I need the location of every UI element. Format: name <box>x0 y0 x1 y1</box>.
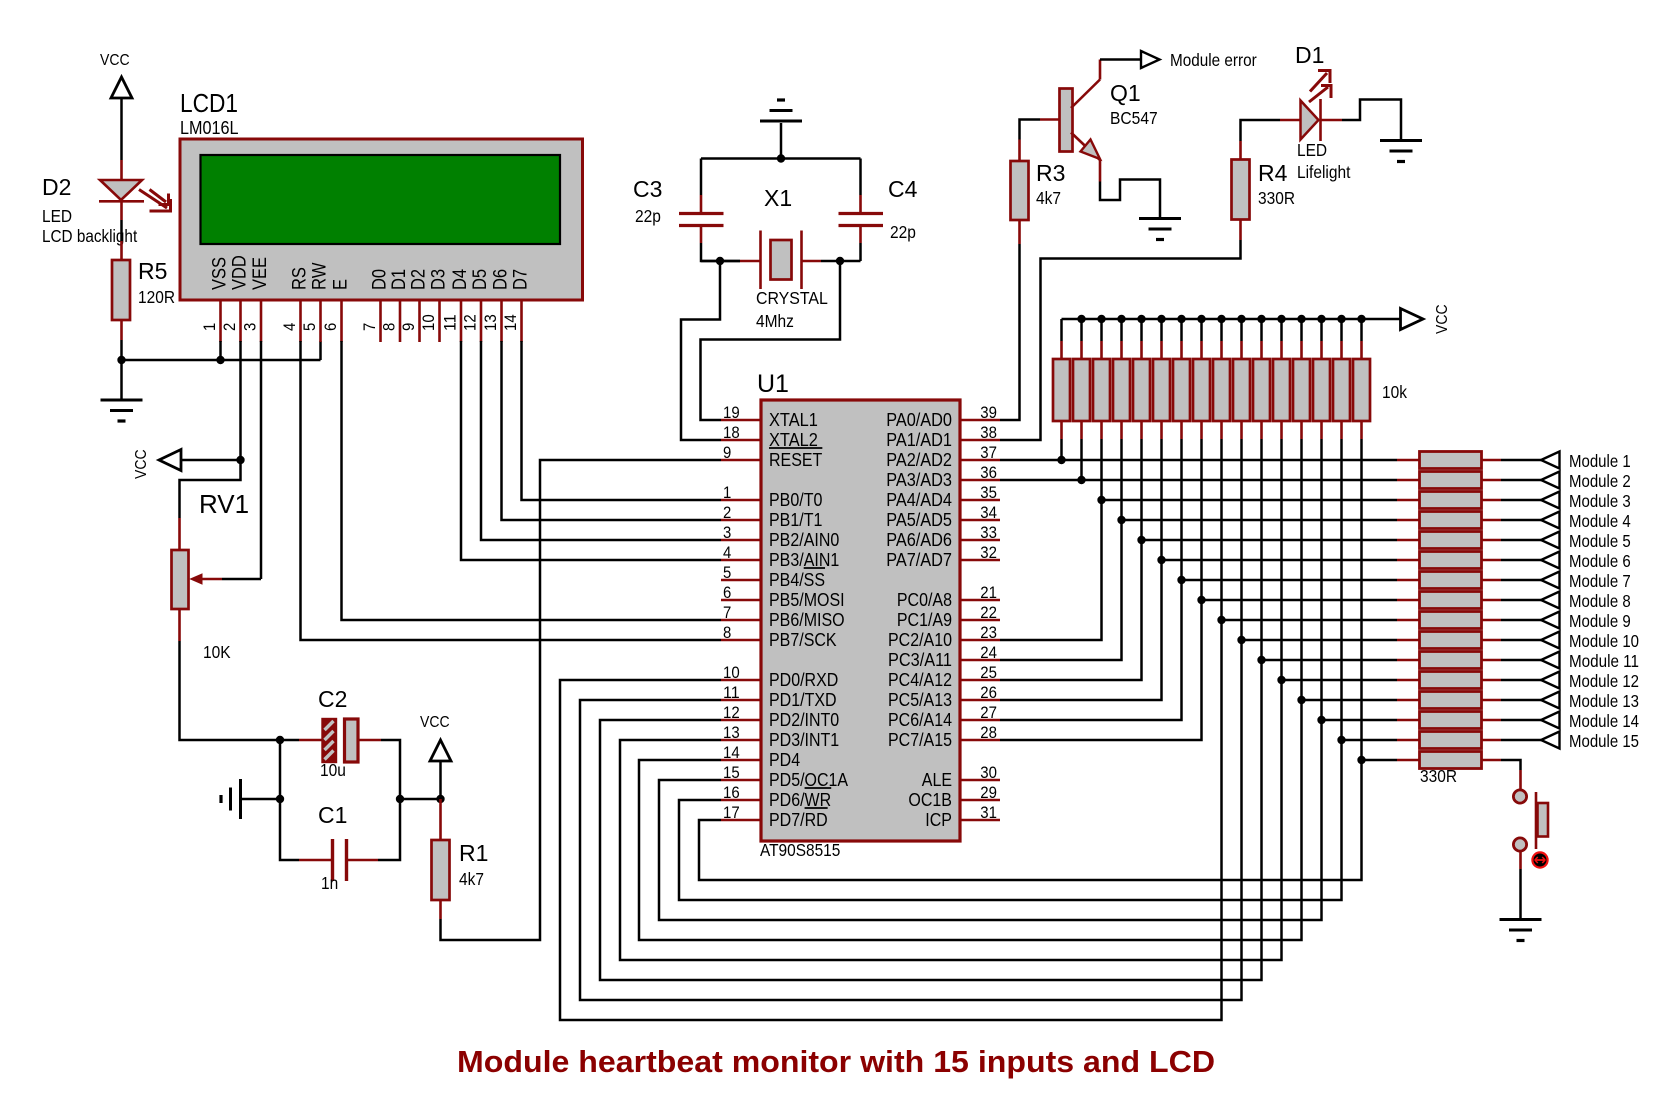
svg-text:CRYSTAL: CRYSTAL <box>756 288 828 308</box>
resistor RN12 10k pull-up <box>1280 319 1283 341</box>
svg-text:14: 14 <box>501 314 520 331</box>
wire button to ground <box>1519 851 1522 869</box>
LCD1 pin 6 E <box>340 300 343 342</box>
wire row16 to button <box>1501 760 1521 770</box>
LCD1 pin 10 D3 <box>438 300 441 342</box>
terminal Module 8 <box>1541 592 1560 609</box>
svg-text:D2: D2 <box>42 174 71 200</box>
U1 pin 16 PD6/WR <box>721 799 761 802</box>
svg-text:14: 14 <box>723 743 740 762</box>
svg-text:PB5/MOSI: PB5/MOSI <box>769 590 845 610</box>
LED D2 <box>100 180 142 200</box>
svg-text:LCD1: LCD1 <box>180 88 238 118</box>
svg-text:RESET: RESET <box>769 450 822 470</box>
wire row16 <box>1362 759 1398 762</box>
svg-text:Module heartbeat monitor with: Module heartbeat monitor with 15 inputs … <box>457 1044 1215 1079</box>
resistor RN10 10k pull-up <box>1240 319 1243 341</box>
junction bus col 6 <box>1157 315 1165 323</box>
junction VSS on ground bus <box>216 356 224 364</box>
svg-text:D2: D2 <box>408 269 430 290</box>
capacitor C2 (polarised) <box>323 719 337 762</box>
wire row7 <box>1182 579 1398 582</box>
wire row8 <box>1202 599 1398 602</box>
junction ground bus left <box>117 356 125 364</box>
svg-text:PB6/MISO: PB6/MISO <box>769 610 845 630</box>
svg-text:19: 19 <box>723 403 740 422</box>
resistor RM3 330R <box>1397 499 1420 502</box>
wire RN13 drop to PD rail <box>639 439 1302 940</box>
svg-text:Module 9: Module 9 <box>1569 611 1631 631</box>
junction XTAL2 tap <box>716 257 724 265</box>
svg-text:VSS: VSS <box>209 257 231 290</box>
svg-text:Module error: Module error <box>1170 50 1257 70</box>
svg-text:5: 5 <box>723 563 731 582</box>
wire RN16 drop to PD rail <box>699 439 1362 880</box>
resistor RM15 330R <box>1397 739 1420 742</box>
wire row9 <box>1222 619 1398 622</box>
terminal Module 7 <box>1541 572 1560 589</box>
svg-text:C1: C1 <box>318 802 347 828</box>
IC U1 AT90S8515 body <box>761 400 960 841</box>
svg-text:R5: R5 <box>138 258 167 284</box>
U1 pin 30 ALE <box>960 779 1000 782</box>
svg-text:17: 17 <box>723 803 740 822</box>
resistor RM16 330R <box>1397 759 1420 762</box>
wire node to C2 left <box>280 739 299 742</box>
svg-text:PC5/A13: PC5/A13 <box>888 690 952 710</box>
wire C3 bottom <box>700 226 703 244</box>
svg-text:1n: 1n <box>321 873 338 893</box>
wire row10 <box>1242 639 1398 642</box>
terminal Module 3 <box>1541 492 1560 509</box>
terminal Module 5 <box>1541 532 1560 549</box>
svg-text:PC4/A12: PC4/A12 <box>888 670 952 690</box>
junction bus col 14 <box>1317 315 1325 323</box>
svg-text:3: 3 <box>723 523 731 542</box>
svg-text:Module 12: Module 12 <box>1569 671 1639 691</box>
svg-text:21: 21 <box>980 583 997 602</box>
junction row10 <box>1237 636 1245 644</box>
U1 pin 32 PA7/AD7 <box>960 559 1000 562</box>
svg-text:1: 1 <box>200 323 219 331</box>
svg-text:8: 8 <box>380 323 399 331</box>
push button <box>1513 790 1526 803</box>
svg-text:AT90S8515: AT90S8515 <box>760 840 840 860</box>
power flag VCC (top left) <box>111 77 132 98</box>
wire RN8 drop to PC pin <box>1000 439 1202 740</box>
svg-text:PB0/T0: PB0/T0 <box>769 490 822 510</box>
wire RN15 drop to PD rail <box>679 439 1342 900</box>
resistor RN16 10k pull-up <box>1360 319 1363 341</box>
wire crystal top bus <box>701 157 861 160</box>
svg-text:PA0/AD0: PA0/AD0 <box>886 410 952 430</box>
wire to Module 15 terminal <box>1501 739 1541 742</box>
svg-text:X1: X1 <box>764 185 792 211</box>
wire C1 right leg <box>347 859 379 862</box>
wire D1 cathode to ground <box>1321 119 1343 122</box>
junction row2 <box>1077 476 1085 484</box>
wire RN1 drop <box>1060 439 1063 460</box>
svg-text:Module 1: Module 1 <box>1569 451 1631 471</box>
svg-text:R1: R1 <box>459 840 488 866</box>
wire RN4 drop to PC pin <box>1000 439 1122 660</box>
svg-text:C2: C2 <box>318 686 347 712</box>
svg-text:Module 8: Module 8 <box>1569 591 1631 611</box>
junction row8 <box>1197 596 1205 604</box>
junction bus col 3 <box>1097 315 1105 323</box>
junction row1 <box>1057 456 1065 464</box>
terminal Module 14 <box>1541 712 1560 729</box>
svg-text:2: 2 <box>723 503 731 522</box>
capacitor C4 <box>839 212 884 215</box>
wire row2 PA3 <box>1000 479 1397 482</box>
svg-text:U1: U1 <box>757 370 789 398</box>
wire R4 to PA1 <box>1239 220 1242 241</box>
wire row12 <box>1282 679 1398 682</box>
svg-text:Module 10: Module 10 <box>1569 631 1639 651</box>
U1 pin 36 PA3/AD3 <box>960 479 1000 482</box>
wire RN9 drop to PD rail <box>560 439 1222 1020</box>
terminal Module 6 <box>1541 552 1560 569</box>
svg-text:VCC: VCC <box>133 449 150 479</box>
resistor RN15 10k pull-up <box>1340 319 1343 341</box>
wire to Module 11 terminal <box>1501 659 1541 662</box>
wire to Module 12 terminal <box>1501 679 1541 682</box>
svg-text:Module 3: Module 3 <box>1569 491 1631 511</box>
wire to Module 6 terminal <box>1501 559 1541 562</box>
resistor RN1 10k pull-up <box>1060 319 1063 341</box>
resistor RM8 330R <box>1397 599 1420 602</box>
resistor RM7 330R <box>1397 579 1420 582</box>
svg-text:VEE: VEE <box>249 257 271 290</box>
resistor RN4 10k pull-up <box>1120 319 1123 341</box>
svg-text:PD6/WR: PD6/WR <box>769 790 831 810</box>
wire RN2 drop <box>1080 439 1083 480</box>
resistor R1 <box>432 840 450 900</box>
svg-text:D1: D1 <box>1295 42 1324 68</box>
junction C right leg <box>396 795 404 803</box>
terminal Module 13 <box>1541 692 1560 709</box>
svg-text:RS: RS <box>289 267 311 290</box>
wire to Module 7 terminal <box>1501 579 1541 582</box>
wire to Module 5 terminal <box>1501 539 1541 542</box>
svg-text:PD2/INT0: PD2/INT0 <box>769 710 839 730</box>
U1 pin 12 PD2/INT0 <box>721 719 761 722</box>
transistor Q1 <box>1060 89 1073 152</box>
junction bus col 16 <box>1357 315 1365 323</box>
wire C3 top <box>700 159 703 196</box>
crystal X1 <box>740 260 761 263</box>
wire XTAL2 route <box>681 261 721 440</box>
wire to Module 8 terminal <box>1501 599 1541 602</box>
wire C4 top <box>859 159 862 196</box>
wire to Module 14 terminal <box>1501 719 1541 722</box>
junction bus col 11 <box>1257 315 1265 323</box>
resistor RN7 10k pull-up <box>1180 319 1183 341</box>
U1 pin 14 PD4 <box>721 759 761 762</box>
resistor RN13 10k pull-up <box>1300 319 1303 341</box>
power flag VCC (bus right) <box>1401 309 1424 330</box>
resistor RN3 10k pull-up <box>1100 319 1103 341</box>
LCD1 pin 7 D0 <box>379 300 382 342</box>
LCD1 pin 1 VSS <box>219 300 222 342</box>
wire ground bus under LCD <box>122 359 321 362</box>
svg-text:PD7/RD: PD7/RD <box>769 810 828 830</box>
wire VCC to D2 anode <box>120 98 123 160</box>
terminal Module 1 <box>1541 452 1560 469</box>
terminal Module 4 <box>1541 512 1560 529</box>
svg-text:18: 18 <box>723 423 740 442</box>
wire RN6 drop to PC pin <box>1000 439 1162 700</box>
svg-text:Lifelight: Lifelight <box>1297 162 1351 182</box>
svg-text:12: 12 <box>723 703 740 722</box>
svg-text:E: E <box>330 279 352 290</box>
resistor RM2 330R <box>1397 479 1420 482</box>
U1 pin 38 PA1/AD1 <box>960 439 1000 442</box>
wire E pin6 to PB6 <box>342 341 722 620</box>
svg-text:9: 9 <box>723 443 731 462</box>
U1 pin 37 PA2/AD2 <box>960 459 1000 462</box>
wire LCD D4 to PB3 <box>461 341 721 560</box>
svg-text:Module 14: Module 14 <box>1569 711 1639 731</box>
svg-text:D6: D6 <box>490 269 512 290</box>
LCD1 pin 12 D5 <box>480 300 483 342</box>
resistor RM11 330R <box>1397 659 1420 662</box>
svg-text:27: 27 <box>980 703 997 722</box>
svg-text:Module 7: Module 7 <box>1569 571 1631 591</box>
U1 pin 10 PD0/RXD <box>721 679 761 682</box>
svg-text:PD5/OC1A: PD5/OC1A <box>769 770 848 790</box>
terminal Module 11 <box>1541 652 1560 669</box>
wire RN5 drop to PC pin <box>1000 439 1142 680</box>
junction VDD/VCC <box>236 456 244 464</box>
resistor RM9 330R <box>1397 619 1420 622</box>
resistor RN11 10k pull-up <box>1260 319 1263 341</box>
wire row1 PA2 <box>1000 459 1397 462</box>
svg-text:PA2/AD2: PA2/AD2 <box>886 450 952 470</box>
svg-text:LCD backlight: LCD backlight <box>42 226 137 246</box>
svg-text:PA1/AD1: PA1/AD1 <box>886 430 952 450</box>
svg-text:PC2/A10: PC2/A10 <box>888 630 952 650</box>
svg-text:10: 10 <box>723 663 740 682</box>
wire row4 <box>1122 519 1398 522</box>
svg-text:LM016L: LM016L <box>180 117 239 138</box>
resistor RN9 10k pull-up <box>1220 319 1223 341</box>
svg-text:10k: 10k <box>1382 382 1407 402</box>
junction bus col 10 <box>1237 315 1245 323</box>
svg-text:23: 23 <box>980 623 997 642</box>
svg-text:4: 4 <box>280 323 299 331</box>
U1 pin 28 PC7/A15 <box>960 739 1000 742</box>
resistor RN6 10k pull-up <box>1160 319 1163 341</box>
U1 pin 1 PB0/T0 <box>721 499 761 502</box>
junction XTAL1 tap <box>836 257 844 265</box>
junction bus col 8 <box>1197 315 1205 323</box>
svg-text:PD3/INT1: PD3/INT1 <box>769 730 839 750</box>
resistor RM13 330R <box>1397 699 1420 702</box>
wire to Module 10 terminal <box>1501 639 1541 642</box>
wire R4 to D1 anode <box>1239 141 1242 160</box>
U1 pin 22 PC1/A9 <box>960 619 1000 622</box>
svg-text:Module 13: Module 13 <box>1569 691 1639 711</box>
svg-text:36: 36 <box>980 463 997 482</box>
svg-text:9: 9 <box>399 323 418 331</box>
U1 pin 27 PC6/A14 <box>960 719 1000 722</box>
wire VEE pin3 to RV1 wiper <box>260 341 263 579</box>
svg-text:120R: 120R <box>138 287 175 307</box>
resistor RN8 10k pull-up <box>1200 319 1203 341</box>
svg-text:PB7/SCK: PB7/SCK <box>769 630 837 650</box>
wire LCD D7 to PB0 <box>522 341 722 500</box>
svg-text:Module 5: Module 5 <box>1569 531 1631 551</box>
wire crystal bottom bus <box>821 260 861 263</box>
junction bus col 9 <box>1217 315 1225 323</box>
svg-text:VCC: VCC <box>420 714 450 731</box>
junction bus col 7 <box>1177 315 1185 323</box>
wire row14 <box>1322 719 1398 722</box>
LCD1 pin 5 RW <box>319 300 322 342</box>
svg-text:C4: C4 <box>888 176 918 202</box>
wire to Module 13 terminal <box>1501 699 1541 702</box>
svg-text:39: 39 <box>980 403 997 422</box>
U1 pin 6 PB5/MOSI <box>721 599 761 602</box>
junction bus col 15 <box>1337 315 1345 323</box>
junction bus col 5 <box>1137 315 1145 323</box>
svg-text:10: 10 <box>419 314 438 331</box>
svg-text:31: 31 <box>980 803 997 822</box>
svg-text:PB1/T1: PB1/T1 <box>769 510 822 530</box>
power flag VCC (at RV1) <box>159 450 181 471</box>
svg-text:XTAL1: XTAL1 <box>769 410 818 430</box>
svg-text:D3: D3 <box>428 269 450 290</box>
svg-text:34: 34 <box>980 503 997 522</box>
svg-text:PA6/AD6: PA6/AD6 <box>886 530 952 550</box>
junction row12 <box>1277 676 1285 684</box>
U1 pin 3 PB2/AIN0 <box>721 539 761 542</box>
ground (above crystal) <box>760 120 802 123</box>
wire VDD pin2 to VCC <box>239 341 242 460</box>
svg-text:PC0/A8: PC0/A8 <box>897 590 952 610</box>
wire VCC node to RV1 top <box>180 460 241 518</box>
resistor RN2 10k pull-up <box>1080 319 1083 341</box>
svg-text:10u: 10u <box>320 760 346 780</box>
wire RS pin4 to PB7 <box>301 341 722 640</box>
svg-text:3: 3 <box>241 323 260 331</box>
LCD1 pin 4 RS <box>299 300 302 342</box>
svg-text:PC1/A9: PC1/A9 <box>897 610 952 630</box>
LCD LCD1 body <box>180 139 583 300</box>
LCD1 pin 14 D7 <box>520 300 523 342</box>
resistor R5 <box>112 260 130 320</box>
svg-text:32: 32 <box>980 543 997 562</box>
wire base to R3 <box>1040 118 1060 121</box>
svg-text:38: 38 <box>980 423 997 442</box>
junction row16 <box>1357 756 1365 764</box>
U1 pin 19 XTAL1 <box>721 419 761 422</box>
wire D2 cathode to R5 <box>120 202 123 220</box>
U1 pin 25 PC4/A12 <box>960 679 1000 682</box>
svg-text:1: 1 <box>723 483 731 502</box>
svg-text:13: 13 <box>723 723 740 742</box>
U1 pin 29 OC1B <box>960 799 1000 802</box>
wire R3 to PA0 <box>1018 220 1021 244</box>
ground (button) <box>1500 918 1542 921</box>
resistor RM4 330R <box>1397 519 1420 522</box>
junction row3 <box>1097 496 1105 504</box>
U1 pin 39 PA0/AD0 <box>960 419 1000 422</box>
svg-text:4: 4 <box>723 543 731 562</box>
svg-text:XTAL2: XTAL2 <box>769 430 818 450</box>
svg-text:8: 8 <box>723 623 731 642</box>
resistor RM14 330R <box>1397 719 1420 722</box>
svg-text:Module 15: Module 15 <box>1569 731 1639 751</box>
svg-text:12: 12 <box>461 314 480 331</box>
svg-text:22p: 22p <box>890 222 916 242</box>
LCD1 pin 11 D4 <box>460 300 463 342</box>
ground (Q1 emitter) <box>1139 217 1181 220</box>
svg-text:13: 13 <box>481 314 500 331</box>
svg-text:PB3/AIN1: PB3/AIN1 <box>769 550 839 570</box>
wire RN12 drop to PD rail <box>620 439 1282 960</box>
potentiometer RV1 <box>172 550 189 609</box>
svg-text:Q1: Q1 <box>1110 80 1141 106</box>
junction bus col 12 <box>1277 315 1285 323</box>
wire VSS pin1 to ground bus <box>219 341 222 360</box>
wire row5 <box>1142 539 1398 542</box>
capacitor C3 <box>679 212 724 215</box>
svg-text:PA7/AD7: PA7/AD7 <box>886 550 952 570</box>
svg-text:R4: R4 <box>1258 160 1288 186</box>
wire to Module 9 terminal <box>1501 619 1541 622</box>
junction R1 top node <box>436 795 444 803</box>
svg-text:4Mhz: 4Mhz <box>756 311 794 331</box>
svg-text:330R: 330R <box>1258 188 1295 208</box>
LCD1 screen <box>201 155 561 244</box>
U1 pin 34 PA5/AD5 <box>960 519 1000 522</box>
svg-text:7: 7 <box>360 323 379 331</box>
svg-text:22p: 22p <box>635 206 661 226</box>
junction row9 <box>1217 616 1225 624</box>
wire LCD D5 to PB2 <box>481 341 721 540</box>
svg-text:15: 15 <box>723 763 740 782</box>
wire to Module 2 terminal <box>1501 479 1541 482</box>
wire C node to R1 node <box>400 798 441 801</box>
U1 pin 21 PC0/A8 <box>960 599 1000 602</box>
svg-text:RW: RW <box>309 262 331 290</box>
svg-text:VDD: VDD <box>229 255 251 290</box>
ground (D1) <box>1380 139 1422 142</box>
svg-text:37: 37 <box>980 443 997 462</box>
svg-text:25: 25 <box>980 663 997 682</box>
U1 pin 31 ICP <box>960 819 1000 822</box>
svg-text:LED: LED <box>42 206 72 226</box>
junction row14 <box>1317 716 1325 724</box>
wire row11 <box>1262 659 1398 662</box>
wire row13 <box>1302 699 1398 702</box>
U1 pin 5 PB4/SS <box>721 579 761 582</box>
wire RN3 drop to PC pin <box>1000 439 1102 640</box>
wire to Module 3 terminal <box>1501 499 1541 502</box>
svg-text:10K: 10K <box>203 642 231 662</box>
svg-text:5: 5 <box>300 323 319 331</box>
svg-text:D4: D4 <box>449 269 471 290</box>
ground (below R5) <box>101 399 143 402</box>
svg-text:BC547: BC547 <box>1110 108 1158 128</box>
wire node to R1 <box>439 799 442 840</box>
junction row13 <box>1297 696 1305 704</box>
svg-text:30: 30 <box>980 763 997 782</box>
svg-text:PD1/TXD: PD1/TXD <box>769 690 837 710</box>
